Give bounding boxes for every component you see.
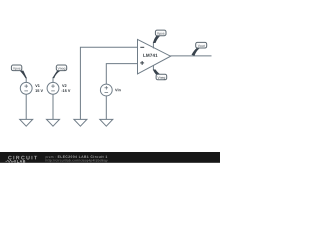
voltage source Vin <box>100 84 112 96</box>
ground (V2) <box>47 119 60 126</box>
node flag Vout <box>192 42 207 55</box>
node flag Vpos (at V1) <box>11 65 27 78</box>
wire from V1 to ground <box>25 94 27 119</box>
node flag Vpos (op-amp V+) <box>153 30 166 43</box>
wire from op-amp inverting input to ground <box>80 47 137 119</box>
node flag Vneg (at V2) <box>53 65 67 78</box>
wire from V2 to ground <box>52 94 54 119</box>
footer text line 1 <box>46 156 56 158</box>
ground (inverting input net) <box>74 119 87 126</box>
wire from Vneg flag to V2 top terminal <box>52 77 54 82</box>
wire from Vin source to ground <box>105 96 107 120</box>
label Vin <box>115 89 121 92</box>
footer text line 2 <box>46 159 108 162</box>
op-amp U1 LM741 <box>138 39 171 74</box>
footer bar <box>0 152 220 163</box>
wire from Vpos flag to V1 top terminal <box>25 78 27 83</box>
wire op-amp output to right edge <box>170 55 211 57</box>
wire from Vin source to op-amp non-inverting input <box>106 64 137 85</box>
ground (Vin) <box>100 119 113 126</box>
wire op-amp V+ power pin stub <box>152 43 154 49</box>
wire op-amp V- power pin stub <box>152 65 154 70</box>
ground (V1) <box>20 119 33 126</box>
voltage source V2 <box>47 82 59 94</box>
node flag Vneg (op-amp V-) <box>153 70 167 80</box>
CircuitLab logo <box>6 156 38 163</box>
label V2 -15 V <box>62 84 66 87</box>
label V1 15 V <box>35 84 40 87</box>
voltage source V1 <box>20 82 32 94</box>
